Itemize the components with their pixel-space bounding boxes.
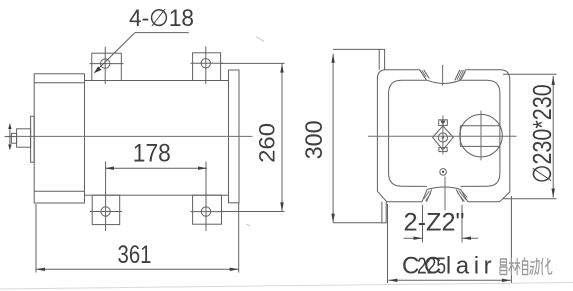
svg-text:2-Z2": 2-Z2" xyxy=(404,209,465,237)
svg-text:∅230*230: ∅230*230 xyxy=(527,84,557,183)
svg-text:CClair: CClair xyxy=(402,253,496,280)
svg-text:361: 361 xyxy=(118,241,152,269)
svg-text:178: 178 xyxy=(133,140,171,168)
svg-text:300: 300 xyxy=(301,120,328,159)
svg-text:260: 260 xyxy=(255,123,280,163)
svg-text:4-∅18: 4-∅18 xyxy=(129,5,194,32)
